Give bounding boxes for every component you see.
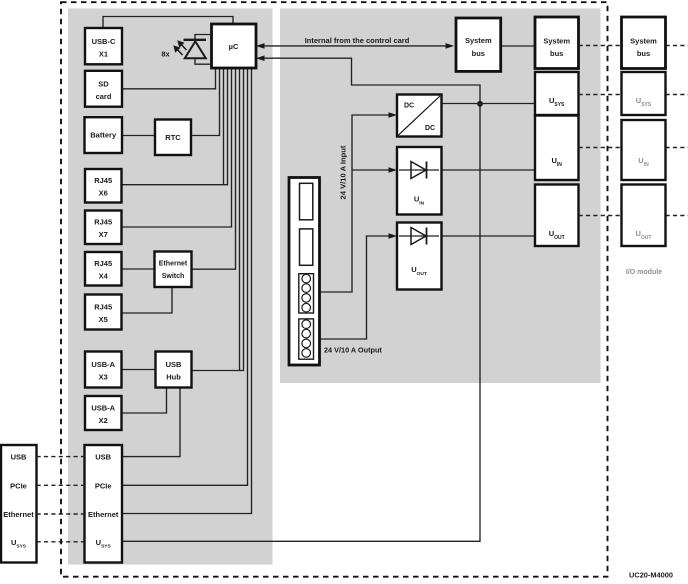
wire USB-A X2 to USB Hub bottom — [122, 388, 167, 414]
box USB Hub — [156, 352, 192, 388]
terminal block input branch to UIN diode — [352, 169, 395, 171]
terminal block output wire — [320, 236, 396, 339]
svg-text:Ethernet: Ethernet — [159, 261, 188, 268]
svg-text:X4: X4 — [99, 272, 109, 281]
terminal block connector — [289, 178, 320, 366]
svg-text:Switch: Switch — [162, 273, 185, 280]
terminal block input wire — [320, 115, 396, 292]
node junction dot — [477, 101, 483, 107]
wire dashed Usys link external to internal — [37, 541, 85, 543]
microcontroller uC — [212, 24, 257, 68]
ports tall box external — [1, 445, 37, 563]
wire dashed Usys link to IO module — [579, 94, 688, 96]
DC/DC converter — [397, 95, 442, 137]
svg-text:X2: X2 — [99, 416, 108, 425]
wire RJ45 X5 to Ethernet Switch bottom — [122, 287, 173, 313]
svg-text:µC: µC — [229, 42, 239, 51]
svg-text:bus: bus — [550, 49, 563, 58]
svg-text:24 V/10 A Output: 24 V/10 A Output — [324, 346, 382, 355]
svg-text:Ethernet: Ethernet — [3, 510, 34, 519]
svg-text:24 V/10 A Input: 24 V/10 A Input — [339, 145, 348, 199]
wire dashed Uout link to IO module — [579, 215, 688, 217]
svg-text:USB-C: USB-C — [92, 37, 116, 46]
svg-text:USB-A: USB-A — [91, 360, 115, 369]
arrowhead into uC line2 — [256, 55, 265, 61]
wire RTC to uC (L2) — [191, 68, 220, 136]
svg-text:RJ45: RJ45 — [94, 218, 112, 227]
svg-text:Hub: Hub — [166, 373, 181, 382]
internal-from-control-card double arrow — [256, 36, 454, 49]
svg-text:RTC: RTC — [165, 133, 181, 142]
wire dashed USB link external to internal — [37, 456, 85, 458]
box RJ45 X4 — [85, 252, 122, 286]
svg-text:USB: USB — [11, 452, 27, 461]
wire PCIe row to uC (L9) — [122, 68, 248, 485]
svg-text:Battery: Battery — [90, 131, 117, 140]
middle gray panel — [280, 9, 601, 384]
svg-text:PCIe: PCIe — [10, 482, 27, 491]
IO module Usys — [622, 72, 666, 115]
svg-text:System: System — [465, 36, 492, 45]
svg-text:X5: X5 — [99, 315, 108, 324]
box USB-C X1 — [85, 28, 122, 64]
wire RJ45 X6 to uC (L3 L4) — [122, 68, 228, 185]
UOUT diode output line — [442, 235, 536, 237]
wire Battery to RTC — [122, 135, 155, 137]
wire Usys row to DC/DC node and uC — [122, 58, 480, 541]
svg-text:System: System — [543, 36, 570, 45]
svg-text:SD: SD — [98, 80, 109, 89]
diode UOUT — [397, 223, 442, 290]
wire Ethernet row to uC (L10) — [122, 68, 252, 514]
box System bus left — [456, 18, 501, 71]
box USB-A X3 — [85, 352, 122, 388]
left gray panel — [68, 9, 273, 565]
box RJ45 X7 — [85, 211, 122, 245]
wire USB-C X1 to uC top — [103, 17, 233, 29]
wire dashed Ethernet link external to internal — [37, 513, 85, 515]
bus column Uin — [535, 116, 579, 181]
LED 8x — [161, 40, 206, 59]
box RJ45 X6 — [85, 169, 122, 203]
box Battery — [85, 117, 123, 153]
wire Ethernet Switch to uC (L6) — [192, 68, 236, 269]
svg-text:8x: 8x — [161, 50, 170, 59]
DC/DC output line to Usys box — [442, 103, 536, 105]
box RJ45 X5 — [85, 295, 122, 330]
box SD card — [85, 71, 122, 107]
svg-text:bus: bus — [472, 49, 485, 58]
svg-text:I/O module: I/O module — [626, 269, 662, 276]
wire dashed System bus link to IO module — [579, 45, 688, 47]
wire SD card to uC (L1) — [122, 68, 216, 89]
svg-text:X6: X6 — [99, 189, 108, 198]
ports tall box internal — [85, 445, 123, 563]
LED loop wires — [195, 35, 212, 40]
svg-text:USB: USB — [95, 452, 111, 461]
IO module Uin — [622, 120, 666, 180]
UIN diode output line — [442, 169, 536, 171]
dashed control-cabinet frame — [61, 2, 608, 577]
svg-text:RJ45: RJ45 — [94, 259, 112, 268]
wire RJ45 X4 to Ethernet Switch — [122, 268, 155, 270]
box Ethernet Switch — [155, 252, 192, 288]
svg-text:Ethernet: Ethernet — [88, 510, 119, 519]
svg-text:System: System — [630, 36, 657, 45]
wire USB port row to USB Hub bottom — [122, 388, 180, 457]
svg-text:PCIe: PCIe — [95, 482, 112, 491]
box RTC — [155, 120, 191, 156]
svg-text:bus: bus — [637, 49, 650, 58]
wire dashed PCIe link external to internal — [37, 484, 85, 486]
svg-text:USB: USB — [166, 360, 182, 369]
svg-text:RJ45: RJ45 — [94, 303, 112, 312]
svg-text:DC: DC — [425, 125, 435, 132]
box USB-A X2 — [85, 396, 122, 430]
svg-text:DC: DC — [404, 103, 414, 110]
bus column Uout — [535, 185, 579, 247]
svg-text:card: card — [96, 92, 112, 101]
svg-text:USB-A: USB-A — [91, 404, 115, 413]
wire dashed Uin link to IO module — [579, 147, 688, 149]
System bus 1 to system bus column line — [501, 45, 535, 47]
diode UIN — [397, 147, 442, 215]
control cabinet bus column: System bus — [535, 17, 579, 69]
svg-text:Internal from the control card: Internal from the control card — [305, 36, 410, 45]
svg-text:X3: X3 — [99, 373, 108, 382]
svg-text:RJ45: RJ45 — [94, 176, 112, 185]
IO module: System bus — [622, 17, 666, 69]
IO module Uout — [622, 185, 666, 247]
bus column Usys — [535, 72, 579, 115]
svg-text:X1: X1 — [99, 50, 108, 59]
svg-text:X7: X7 — [99, 230, 108, 239]
wire USB Hub to uC (L7 L8) — [192, 68, 244, 371]
wire USB-A X3 to USB Hub — [122, 369, 156, 371]
wire RJ45 X7 to uC (L5) — [122, 68, 232, 227]
svg-text:UC20-M4000: UC20-M4000 — [629, 571, 673, 580]
